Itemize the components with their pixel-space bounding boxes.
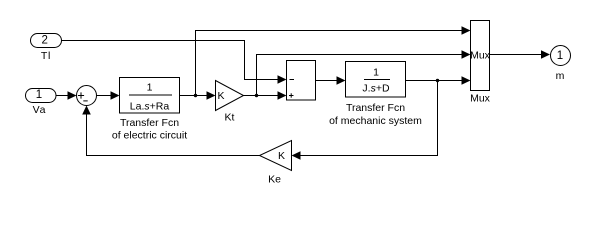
svg-text:of electric circuit: of electric circuit bbox=[112, 129, 187, 141]
svg-text:Tl: Tl bbox=[41, 50, 51, 62]
svg-text:1: 1 bbox=[36, 89, 42, 101]
svg-text:Transfer Fcn: Transfer Fcn bbox=[346, 102, 405, 114]
outport 1 (m) bbox=[551, 46, 571, 66]
wire Va to Sum1 bbox=[56, 95, 69, 97]
wire Ke to Sum1 minus input bbox=[87, 114, 260, 156]
svg-text:Va: Va bbox=[33, 104, 47, 116]
gain Kt bbox=[216, 81, 244, 111]
svg-text:Transfer Fcn: Transfer Fcn bbox=[120, 117, 179, 129]
wire Sum1 to Transfer Fcn bbox=[97, 95, 112, 97]
svg-text:Ke: Ke bbox=[268, 174, 281, 186]
wire feedback to Ke bbox=[300, 81, 438, 156]
svg-text:1: 1 bbox=[147, 82, 153, 94]
svg-text:La.s+Ra: La.s+Ra bbox=[130, 100, 170, 112]
wire Tl to Sum2 minus input bbox=[62, 41, 279, 80]
svg-text:Mux: Mux bbox=[470, 93, 491, 105]
svg-text:1: 1 bbox=[373, 67, 379, 79]
wire current branch to Mux input 1 bbox=[196, 31, 463, 96]
gain Ke bbox=[260, 141, 292, 171]
inport 1 (Va) bbox=[26, 89, 57, 103]
svg-text:K: K bbox=[278, 150, 285, 162]
node speed branch bbox=[436, 79, 439, 82]
node current branch bbox=[194, 94, 197, 97]
wire Kt to Sum2 plus input bbox=[244, 95, 279, 97]
sum junction Sum1 bbox=[77, 86, 97, 106]
svg-text:K: K bbox=[217, 90, 224, 102]
transfer fcn of electric circuit 1/(La.s+Ra) bbox=[120, 78, 180, 114]
transfer fcn of mechanic system 1/(J.s+D) bbox=[346, 62, 406, 98]
wire Transfer Fcn to Kt bbox=[180, 95, 208, 97]
svg-text:of mechanic system: of mechanic system bbox=[329, 115, 422, 127]
wire Mux to outport bbox=[490, 54, 544, 56]
inport 2 (Tl) bbox=[31, 34, 62, 48]
svg-text:Mux: Mux bbox=[470, 50, 491, 62]
wire torque branch to Mux input 2 bbox=[257, 55, 463, 96]
svg-text:Kt: Kt bbox=[225, 112, 235, 124]
wire mechanic Transfer Fcn to Mux input 3 bbox=[406, 80, 463, 82]
node torque branch bbox=[255, 94, 258, 97]
svg-text:J.s+D: J.s+D bbox=[362, 82, 390, 94]
sum Sum2 bbox=[287, 61, 316, 101]
svg-text:1: 1 bbox=[557, 50, 563, 62]
Mux bbox=[470, 21, 491, 91]
svg-text:m: m bbox=[556, 70, 565, 82]
wire Sum2 to mechanic Transfer Fcn bbox=[316, 80, 338, 82]
svg-text:2: 2 bbox=[41, 34, 47, 46]
